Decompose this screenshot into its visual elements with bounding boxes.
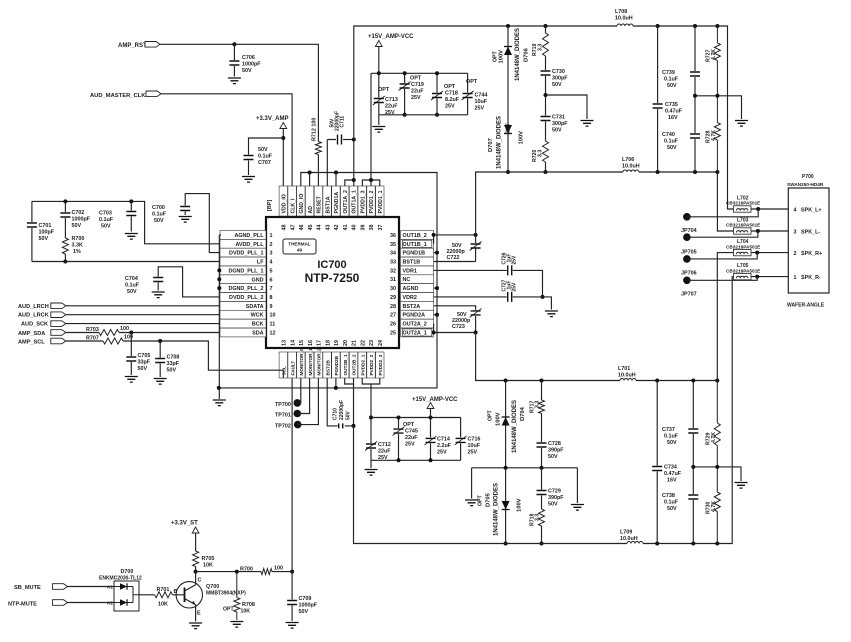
wire C727 to ground — [513, 297, 552, 310]
wire AGND to bus — [434, 287, 437, 289]
svg-text:C730: C730 — [552, 69, 565, 75]
diode D706 — [493, 28, 530, 81]
junction DGND_PLL_2 — [217, 286, 221, 290]
svg-text:11: 11 — [270, 322, 276, 328]
svg-text:0.47uF: 0.47uF — [665, 109, 683, 115]
svg-text:37: 37 — [378, 225, 384, 231]
capacitor C703 — [99, 201, 136, 231]
wire BST2A to C723 — [434, 306, 476, 310]
svg-text:16V: 16V — [667, 478, 677, 484]
svg-text:25V: 25V — [468, 450, 478, 456]
svg-text:1000pF: 1000pF — [242, 62, 261, 68]
svg-text:OPT: OPT — [223, 607, 234, 613]
wire +3.3V_ST to R705 — [195, 533, 197, 572]
capacitor C735 — [653, 26, 683, 172]
svg-text:PVDD1_3: PVDD1_3 — [360, 190, 366, 213]
capacitor C731 — [541, 115, 569, 134]
svg-text:R701: R701 — [157, 587, 170, 593]
pin 40 OUT1A_1 label box — [349, 186, 357, 231]
wire OUT2B pins join — [345, 378, 354, 384]
svg-text:CB3216PA501E: CB3216PA501E — [726, 244, 760, 249]
svg-text:OPT: OPT — [444, 84, 456, 90]
resistor R729 — [706, 381, 721, 467]
svg-text:L709: L709 — [620, 530, 632, 536]
svg-text:SWAN250-HD4R: SWAN250-HD4R — [787, 182, 824, 187]
wire PLL LF bus — [32, 261, 220, 263]
svg-text:25V: 25V — [445, 104, 455, 110]
svg-text:38: 38 — [369, 225, 375, 231]
svg-text:TP700: TP700 — [275, 402, 291, 408]
junction C719 bottom — [403, 113, 407, 117]
capacitor C728 — [537, 441, 565, 460]
svg-text:100V: 100V — [519, 131, 525, 145]
svg-text:AUD_LRCK: AUD_LRCK — [18, 313, 49, 319]
svg-text:DVDD_PLL_2: DVDD_PLL_2 — [229, 295, 263, 301]
svg-text:1000pF: 1000pF — [72, 217, 91, 223]
diode pair D700 ENKMC2030-TL12 — [99, 569, 142, 611]
svg-text:9: 9 — [270, 304, 273, 310]
diode D704 — [488, 400, 527, 453]
svg-text:0.1uF: 0.1uF — [664, 500, 679, 506]
junction C723 bottom — [474, 331, 478, 335]
pin 14 FAULT label box — [288, 340, 296, 378]
IC700 part number NTP-7250 — [305, 271, 360, 285]
svg-text:25V: 25V — [512, 282, 518, 292]
wire BST2B to C710 — [327, 378, 353, 426]
svg-text:VDR1: VDR1 — [403, 268, 417, 274]
svg-text:C713: C713 — [385, 97, 398, 103]
svg-text:100V: 100V — [499, 50, 505, 64]
capacitor C707 — [244, 147, 273, 166]
svg-text:IC700: IC700 — [317, 259, 346, 271]
capacitor C711 — [330, 111, 346, 145]
junction ground rail left end — [217, 386, 221, 390]
svg-text:JP705: JP705 — [681, 249, 697, 255]
svg-text:SDA: SDA — [252, 330, 263, 336]
svg-text:C711: C711 — [340, 116, 346, 128]
capacitor C705 — [126, 333, 150, 376]
capacitor C700 — [152, 205, 190, 224]
svg-text:C734: C734 — [664, 465, 677, 471]
pin 29 VDR2 label box — [390, 293, 434, 302]
ground for bank2 — [365, 470, 378, 476]
svg-text:PGND2B: PGND2B — [334, 355, 339, 375]
junction C745 bottom — [397, 458, 401, 462]
svg-text:10.0uH: 10.0uH — [618, 373, 636, 379]
svg-text:L706: L706 — [622, 157, 634, 163]
pin 10 WCK label box — [220, 310, 276, 319]
svg-text:43: 43 — [325, 225, 331, 231]
node TP700 test point — [275, 399, 301, 408]
svg-text:0.1uF: 0.1uF — [258, 154, 273, 160]
junction C703 — [129, 199, 133, 203]
power +3.3V_AMP — [256, 116, 289, 129]
svg-text:OPT: OPT — [506, 123, 512, 134]
wire JP706 — [687, 253, 757, 259]
junction C745 top — [397, 416, 401, 420]
svg-text:1%: 1% — [73, 249, 81, 255]
svg-text:D706: D706 — [524, 47, 530, 62]
svg-text:OUT1A_1: OUT1A_1 — [352, 190, 358, 213]
capacitor C701 — [27, 201, 55, 261]
pin 5 DGND_PLL_1 label box — [220, 266, 273, 275]
svg-text:E: E — [197, 611, 201, 617]
svg-text:10.0uH: 10.0uH — [615, 16, 633, 22]
capacitor C706 — [229, 44, 261, 76]
wire bead L702 out — [751, 208, 788, 210]
svg-text:33pF: 33pF — [167, 361, 180, 367]
svg-text:24: 24 — [378, 340, 384, 346]
ground for C700 — [179, 217, 192, 223]
svg-text:GND_IO: GND_IO — [299, 194, 305, 214]
junction DGND_PLL_1 — [217, 268, 221, 272]
svg-text:50V: 50V — [39, 236, 49, 242]
capacitor C729 — [537, 489, 565, 508]
capacitor C745 — [393, 418, 419, 461]
wire OUT2A to filter — [476, 333, 718, 381]
junction D705 bottom — [504, 542, 508, 546]
junction R717 top — [540, 379, 544, 383]
svg-text:25V: 25V — [475, 106, 485, 112]
svg-text:10: 10 — [270, 313, 276, 319]
wire +3.3V_AMP to VDD_IO — [282, 129, 284, 187]
junction PVDD2 bus — [369, 416, 373, 420]
junction L702 out — [756, 207, 760, 211]
resistor R730 — [706, 467, 721, 544]
svg-text:10uF: 10uF — [468, 443, 481, 449]
svg-text:RESET: RESET — [317, 195, 323, 213]
svg-text:C700: C700 — [152, 205, 165, 211]
svg-text:C714: C714 — [437, 437, 450, 443]
svg-text:R712 100: R712 100 — [312, 118, 318, 141]
svg-text:0.1uF: 0.1uF — [664, 77, 679, 83]
node OUT1B_1 emphasis box — [402, 240, 432, 247]
svg-text:NTP-MUTE: NTP-MUTE — [8, 601, 37, 607]
svg-text:10K: 10K — [158, 602, 168, 608]
svg-text:OPT: OPT — [403, 422, 415, 428]
capacitor C709 — [287, 572, 318, 621]
wire ground bus — [219, 173, 437, 388]
ground for C708 — [154, 379, 167, 385]
wire JP704 — [687, 209, 758, 217]
svg-text:CB3216PA501E: CB3216PA501E — [726, 223, 760, 228]
pin 38 PVDD1_2 label box — [367, 186, 375, 231]
wire snubber mid to ground — [546, 95, 588, 119]
pin 39 PVDD1_3 label box — [358, 186, 366, 231]
svg-text:AD: AD — [308, 206, 314, 214]
svg-text:12: 12 — [270, 330, 276, 336]
svg-text:BST1A: BST1A — [325, 196, 331, 213]
pin 17 MONITOR_2 label box — [314, 340, 322, 378]
svg-text:10.0uH: 10.0uH — [622, 164, 640, 170]
wire OUT1A to filter — [354, 26, 734, 209]
svg-text:R705: R705 — [202, 556, 215, 562]
svg-text:19: 19 — [334, 340, 340, 346]
svg-text:AMP_RST: AMP_RST — [118, 43, 147, 49]
capacitor C726 — [502, 252, 518, 275]
svg-text:C737: C737 — [662, 427, 675, 433]
wire TP700 to MONITOR_0 — [297, 378, 301, 403]
svg-text:22000pF: 22000pF — [339, 400, 345, 420]
svg-text:C719: C719 — [411, 82, 424, 88]
svg-text:42: 42 — [334, 225, 340, 231]
svg-text:4: 4 — [270, 260, 273, 266]
junction R720 bottom — [544, 170, 548, 174]
svg-text:C739: C739 — [662, 70, 675, 76]
svg-text:50V: 50V — [127, 289, 137, 295]
svg-text:L708: L708 — [615, 9, 627, 15]
svg-text:2.2uF: 2.2uF — [437, 443, 452, 449]
junction C718 top — [435, 71, 439, 75]
junction AD pin on bus — [308, 171, 312, 175]
ground for C706 — [228, 78, 241, 84]
capacitor C712 — [365, 418, 391, 469]
pin 33 BST1B label box — [390, 257, 434, 266]
svg-text:BCK: BCK — [252, 322, 264, 328]
wire C711 right to OUT1A node — [343, 139, 354, 141]
svg-text:4.7K: 4.7K — [711, 432, 717, 443]
pin 31 NC label box — [390, 275, 434, 284]
svg-text:50V: 50V — [552, 82, 562, 88]
junction R730 bottom — [715, 542, 719, 546]
capacitor C744 — [462, 73, 488, 115]
pin 21 OUT2B_2 label box — [349, 340, 357, 378]
wire VDR2 to C727 — [434, 296, 507, 298]
svg-text:PVDD2_1: PVDD2_1 — [360, 354, 365, 375]
svg-text:MMBT3904(NXP): MMBT3904(NXP) — [206, 590, 246, 596]
wire top filter mid — [695, 96, 742, 119]
pin 9 SDATA label box — [220, 302, 273, 311]
svg-text:27: 27 — [390, 313, 396, 319]
svg-text:BST2B: BST2B — [325, 360, 330, 376]
inductor L706 — [622, 157, 640, 172]
resistor R703 — [86, 326, 129, 336]
pin 35 OUT1B_1 label box — [390, 239, 434, 248]
svg-text:25: 25 — [390, 330, 396, 336]
svg-text:D700: D700 — [121, 569, 134, 575]
junction FAULT C709 — [290, 570, 294, 574]
svg-text:3: 3 — [794, 229, 797, 235]
wire AVDD_PLL feed — [131, 201, 220, 243]
svg-text:SDATA: SDATA — [246, 304, 264, 310]
resistor R700 — [240, 566, 283, 575]
junction C737 top — [691, 379, 695, 383]
junction C714 bottom — [429, 458, 433, 462]
svg-text:MONITOR_1: MONITOR_1 — [308, 348, 313, 376]
junction C738 bottom — [691, 542, 695, 546]
capacitor C716 — [455, 418, 481, 461]
pin 15 MONITOR_0 label box — [297, 340, 305, 378]
junction C708 — [158, 339, 162, 343]
svg-text:DGND_PLL_2: DGND_PLL_2 — [228, 286, 263, 292]
svg-text:P700: P700 — [802, 174, 814, 180]
junction C702 bottom — [63, 260, 67, 264]
svg-text:C729: C729 — [548, 489, 561, 495]
capacitor C737 — [662, 381, 698, 467]
thermal pad 49 box — [283, 239, 316, 254]
junction OUT1A elbow — [352, 178, 356, 182]
ground clamp rail right — [571, 505, 584, 511]
junction C735 bottom — [656, 170, 660, 174]
svg-text:OPT: OPT — [478, 495, 484, 506]
wire left ground bus — [219, 235, 221, 399]
junction L703 out — [756, 229, 760, 233]
wire D704 column — [505, 381, 507, 468]
svg-text:4.7K: 4.7K — [711, 501, 717, 512]
wire OUT1B to bead L703 — [717, 172, 733, 231]
svg-text:22: 22 — [360, 340, 366, 346]
pin 8 DVDD_PLL_2 label box — [220, 293, 273, 302]
pin 23 PVDD2_2 label box — [367, 340, 375, 378]
svg-text:1: 1 — [794, 275, 797, 281]
junction R718 bottom — [540, 542, 544, 546]
svg-text:50V: 50V — [667, 506, 677, 512]
svg-text:22uF: 22uF — [385, 104, 398, 110]
pin 48 VDD_IO label box — [279, 186, 287, 231]
resistor R719 — [532, 33, 549, 56]
capacitor C710 — [333, 400, 352, 428]
svg-text:PVDD1_1: PVDD1_1 — [378, 190, 384, 213]
svg-text:390pF: 390pF — [548, 495, 564, 501]
svg-text:JP707: JP707 — [681, 292, 697, 298]
wire +15V bank2 bottom bus — [371, 459, 461, 461]
ground for +15V bank1 — [372, 127, 385, 133]
svg-text:22uF: 22uF — [378, 449, 391, 455]
wire +15V bank2 top bus — [371, 417, 461, 419]
pin 37 PVDD1_1 label box — [376, 186, 384, 231]
svg-text:22uF: 22uF — [405, 435, 418, 441]
svg-text:Q700: Q700 — [206, 584, 219, 590]
wire TP701 to MONITOR_1 — [297, 378, 309, 414]
wire AD pin stub — [309, 173, 311, 187]
svg-text:OUT1A_2: OUT1A_2 — [343, 190, 349, 213]
junction C726 C727 — [541, 295, 545, 299]
svg-text:50V: 50V — [154, 218, 164, 224]
pin 28 BST2A label box — [390, 301, 434, 310]
svg-text:25V: 25V — [378, 455, 388, 461]
svg-text:C703: C703 — [99, 211, 112, 217]
node AUD_SCK input — [21, 321, 66, 328]
junction D707 bottom — [506, 170, 510, 174]
node OUT2A_1 emphasis box — [402, 329, 432, 336]
junction C702 top — [63, 199, 67, 203]
svg-text:R700: R700 — [72, 236, 85, 242]
svg-text:OUT2A_2: OUT2A_2 — [403, 322, 427, 328]
capacitor C718 — [431, 73, 460, 115]
svg-text:0.1uF: 0.1uF — [152, 212, 167, 218]
wire C722 to BST1B — [434, 261, 476, 263]
svg-text:49: 49 — [297, 248, 303, 253]
svg-text:50V: 50V — [552, 128, 562, 134]
wire bottom filter mid — [693, 467, 741, 481]
node TP701 test point — [275, 410, 301, 419]
wire +15V arrow2 to bus — [430, 409, 432, 418]
wire AUD_SCK to BCK — [66, 323, 220, 325]
svg-text:THERMAL: THERMAL — [288, 242, 311, 247]
svg-text:16: 16 — [308, 340, 314, 346]
node JP706 test point — [681, 255, 697, 276]
svg-text:C: C — [198, 578, 202, 584]
svg-text:25V: 25V — [405, 442, 415, 448]
svg-text:R708: R708 — [242, 602, 255, 608]
svg-text:0.1uF: 0.1uF — [99, 217, 114, 223]
svg-text:3.3K: 3.3K — [72, 243, 83, 249]
svg-text:C709: C709 — [299, 596, 312, 602]
wire AUD_LRCH to SDATA — [66, 305, 220, 307]
svg-text:39: 39 — [360, 225, 366, 231]
wire collector to R700 — [196, 571, 293, 573]
node JP705 test point — [681, 233, 697, 255]
svg-text:50V: 50V — [299, 609, 309, 615]
svg-text:50V: 50V — [101, 224, 111, 230]
wire AMP_RST to RESET pin — [160, 44, 318, 186]
capacitor C713 — [373, 73, 398, 116]
junction C722 top — [474, 233, 478, 237]
svg-text:C740: C740 — [662, 132, 675, 138]
svg-text:SPK_L+: SPK_L+ — [801, 207, 822, 213]
capacitor C739 — [662, 26, 700, 96]
wire +15V bottom bus — [379, 115, 468, 125]
power +3.3V_ST — [171, 521, 199, 534]
resistor R727 — [706, 26, 721, 96]
svg-text:PGND2A: PGND2A — [403, 313, 426, 319]
wire AMP_SCL to SCL — [66, 341, 283, 378]
junction OUT1B join — [432, 233, 436, 237]
resistor R705 — [193, 551, 215, 569]
pin 44 RESET label box — [314, 186, 322, 231]
svg-text:OUT2B_2: OUT2B_2 — [352, 354, 357, 375]
pin 42 PGND1A label box — [332, 186, 340, 231]
wire C711 left to BST1A pin — [327, 140, 336, 187]
svg-text:35: 35 — [390, 242, 396, 248]
svg-text:45: 45 — [308, 225, 314, 231]
svg-text:C701: C701 — [39, 223, 52, 229]
wire TP702 to MONITOR_2 — [298, 378, 319, 425]
junction AGND — [435, 286, 439, 290]
wire to C707 — [249, 138, 284, 175]
junction GND pin6 — [217, 277, 221, 281]
svg-text:22uF: 22uF — [411, 89, 424, 95]
svg-text:100V: 100V — [496, 412, 502, 426]
svg-text:23: 23 — [369, 340, 375, 346]
svg-text:C735: C735 — [665, 102, 678, 108]
connector P700 SWAN250-HD4R — [787, 174, 829, 309]
wire PVDD1 riser — [362, 73, 379, 186]
wire AUD_LRCK to WCK — [66, 314, 220, 316]
svg-text:33: 33 — [390, 259, 396, 265]
svg-text:SB_MUTE: SB_MUTE — [14, 585, 41, 591]
svg-text:3: 3 — [270, 251, 273, 257]
junction C718 bottom — [435, 113, 439, 117]
ground for C705 — [125, 377, 138, 383]
capacitor C723 — [452, 308, 482, 330]
junction C739 C740 mid — [693, 94, 697, 98]
ground clamp rail left — [465, 500, 478, 506]
svg-text:+3.3V_ST: +3.3V_ST — [171, 521, 198, 527]
svg-text:AVDD_PLL: AVDD_PLL — [235, 242, 264, 248]
svg-text:C738: C738 — [662, 493, 675, 499]
svg-text:15: 15 — [299, 340, 305, 346]
wire NTP-MUTE to D700 — [68, 602, 115, 604]
svg-text:100V: 100V — [517, 498, 523, 512]
svg-text:26: 26 — [390, 322, 396, 328]
svg-text:JP704: JP704 — [681, 228, 697, 234]
svg-text:GND: GND — [252, 277, 264, 283]
resistor R708 — [223, 572, 255, 620]
node NTP-MUTE input — [8, 600, 68, 608]
svg-text:CB3216PA501E: CB3216PA501E — [726, 201, 760, 206]
node JP707 test point — [681, 277, 697, 298]
